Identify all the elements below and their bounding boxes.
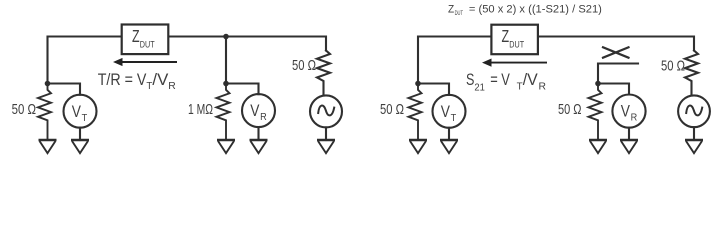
svg-text:21: 21	[474, 83, 485, 94]
svg-text:S: S	[466, 71, 474, 89]
svg-text:R: R	[168, 81, 176, 92]
svg-text:V: V	[441, 103, 450, 121]
svg-text:50 Ω: 50 Ω	[292, 58, 316, 74]
svg-text:T: T	[82, 113, 88, 124]
svg-text:V: V	[72, 103, 81, 121]
svg-text:Z: Z	[132, 26, 140, 46]
svg-text:1 MΩ: 1 MΩ	[188, 102, 213, 118]
svg-text:= V: = V	[490, 71, 510, 89]
svg-text:= (50 x 2) x ((1-S21) / S21): = (50 x 2) x ((1-S21) / S21)	[469, 3, 602, 15]
svg-text:V: V	[250, 102, 259, 120]
svg-text:R: R	[631, 113, 638, 124]
svg-text:T: T	[451, 113, 457, 124]
svg-text:DUT: DUT	[509, 40, 524, 50]
svg-text:DUT: DUT	[140, 40, 155, 50]
svg-text:/V: /V	[523, 71, 538, 89]
svg-text:DUT: DUT	[455, 11, 464, 17]
svg-text:50 Ω: 50 Ω	[380, 102, 404, 118]
svg-text:T: T	[517, 82, 523, 93]
svg-text:Z: Z	[448, 3, 454, 15]
svg-text:R: R	[260, 112, 267, 123]
svg-text:Z: Z	[502, 26, 510, 46]
svg-text:50 Ω: 50 Ω	[661, 58, 685, 74]
svg-text:T/R = V: T/R = V	[98, 71, 147, 89]
svg-text:V: V	[621, 103, 630, 121]
svg-text:/V: /V	[152, 71, 168, 89]
svg-text:50 Ω: 50 Ω	[12, 102, 37, 118]
svg-text:R: R	[539, 82, 547, 93]
svg-text:50 Ω: 50 Ω	[558, 102, 582, 118]
